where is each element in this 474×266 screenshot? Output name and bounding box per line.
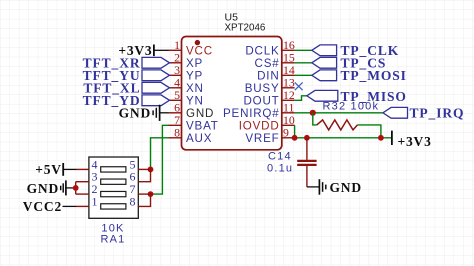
RA1 pin stubs right <box>138 169 150 206</box>
junction node RA1 pin5 <box>148 167 154 173</box>
power port +3V3 (right) <box>392 131 432 149</box>
net flag TP_IRQ <box>383 106 465 121</box>
net label VCC2 wire <box>23 199 77 214</box>
IC U5 XPT2046 body <box>182 37 282 150</box>
junction GND-RA1 <box>73 185 79 191</box>
net flag TFT_XR <box>83 55 170 70</box>
power port +3V3 (pin 1) <box>118 43 168 58</box>
pin 5 YN (left) <box>169 88 204 107</box>
wire pin12 jog <box>295 96 307 101</box>
pin 15 CS# (right) <box>255 51 295 70</box>
svg-text:CS#: CS# <box>255 57 280 70</box>
pin 2 XP (left) <box>169 51 204 70</box>
svg-text:RA1: RA1 <box>101 233 126 245</box>
junction R32 bottom <box>378 135 384 141</box>
net flag TFT_YU <box>83 68 170 83</box>
net flag TFT_YD <box>83 93 170 108</box>
svg-text:VCC2: VCC2 <box>23 199 62 214</box>
svg-text:VREF: VREF <box>245 132 279 145</box>
ground GND (C14) <box>307 179 362 195</box>
svg-text:DIN: DIN <box>257 70 279 83</box>
pin 10 IOVDD (right) <box>239 113 295 132</box>
pin 4 XN (left) <box>169 76 204 95</box>
net flag TP_CLK <box>312 43 399 58</box>
svg-text:TP_IRQ: TP_IRQ <box>410 106 465 121</box>
svg-text:C14: C14 <box>268 151 292 163</box>
wire pin10 IOVDD down <box>294 125 296 138</box>
svg-text:GND: GND <box>330 180 362 195</box>
svg-text:GND: GND <box>27 181 59 196</box>
pin 9 VREF (right) <box>245 126 294 145</box>
pin 8 AUX (left) <box>169 126 213 145</box>
pin 6 GND (left) <box>169 101 215 120</box>
pin 3 YP (left) <box>169 63 204 82</box>
wire pin14 <box>295 74 312 76</box>
wire pin8 AUX to RA1 <box>151 138 169 170</box>
svg-text:GND: GND <box>186 107 214 120</box>
net flag TP_MOSI <box>312 68 407 83</box>
wire pin16 <box>295 49 312 51</box>
no-ERC cross pin 13 <box>295 82 303 90</box>
wire pin11 PENIRQ# net <box>295 112 383 114</box>
net flag TP_CS <box>312 55 386 70</box>
svg-text:XPT2046: XPT2046 <box>225 23 266 34</box>
pin 14 DIN (right) <box>257 63 295 82</box>
svg-text:+3V3: +3V3 <box>398 134 432 149</box>
svg-text:1: 1 <box>92 194 98 208</box>
svg-text:PENIRQ#: PENIRQ# <box>223 107 280 120</box>
svg-text:XN: XN <box>186 82 204 95</box>
svg-text:VBAT: VBAT <box>186 120 219 133</box>
svg-text:8: 8 <box>130 194 136 208</box>
ground GND (pin 6) <box>119 105 169 121</box>
resistor array RA1 body <box>89 157 138 218</box>
power port +5V <box>35 162 76 177</box>
svg-text:IOVDD: IOVDD <box>239 120 280 133</box>
wire pin7 VBAT to RA1 <box>151 125 169 194</box>
junction R32 top <box>310 110 316 116</box>
svg-text:DCLK: DCLK <box>245 45 279 58</box>
pin 7 VBAT (left) <box>169 113 219 132</box>
resistor R32 <box>313 101 381 138</box>
svg-text:R32 100k: R32 100k <box>323 101 380 113</box>
junction node RA1 pin7 <box>148 191 154 197</box>
ground GND (RA1) <box>27 180 76 196</box>
svg-text:BUSY: BUSY <box>245 82 280 95</box>
capacitor C14 <box>267 138 317 187</box>
pin 12 DOUT (right) <box>243 88 294 107</box>
svg-text:8: 8 <box>174 126 180 140</box>
net flag TFT_XL <box>83 80 169 95</box>
svg-text:9: 9 <box>283 126 289 140</box>
pin 1 VCC (left) <box>169 38 213 57</box>
junction pin9-pin10 <box>292 135 298 141</box>
svg-text:TP_MOSI: TP_MOSI <box>341 68 407 83</box>
svg-text:0.1u: 0.1u <box>267 163 293 175</box>
svg-text:YP: YP <box>186 70 203 83</box>
svg-text:XP: XP <box>186 57 203 70</box>
svg-text:DOUT: DOUT <box>243 95 279 108</box>
pin 13 BUSY (right) <box>245 76 295 95</box>
net flag TP_MISO <box>307 89 407 104</box>
pin 11 PENIRQ# (right) <box>223 101 295 120</box>
svg-text:VCC: VCC <box>186 45 213 58</box>
wire GND branch vertical <box>75 182 77 194</box>
pin 16 DCLK (right) <box>245 38 295 57</box>
svg-text:+5V: +5V <box>35 162 62 177</box>
wire pin15 <box>295 62 312 64</box>
RA1 pin stubs left <box>76 169 89 206</box>
RA1 pin numbers <box>92 157 136 208</box>
junction C14 top <box>304 135 310 141</box>
svg-text:YN: YN <box>186 95 204 108</box>
svg-text:GND: GND <box>119 106 151 121</box>
wire pin9 VREF to +3V3 <box>295 137 392 139</box>
svg-text:AUX: AUX <box>186 132 212 145</box>
